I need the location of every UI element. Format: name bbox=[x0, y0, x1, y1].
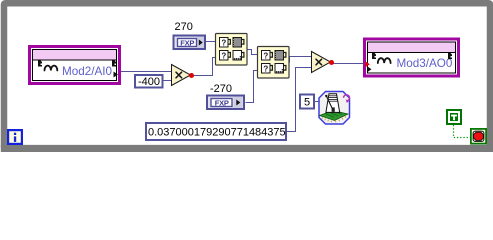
wire 5 constant to loop timer bbox=[315, 102, 321, 106]
svg-text:Mod2/AI0: Mod2/AI0 bbox=[62, 65, 113, 78]
loop condition stop terminal bbox=[471, 129, 486, 144]
multiply node 1 bbox=[172, 65, 195, 86]
svg-text:FXP: FXP bbox=[180, 38, 194, 47]
diagram background bbox=[0, 0, 493, 152]
pendulum bbox=[327, 97, 334, 112]
metronome body bbox=[326, 94, 340, 113]
I/O constant Mod3/AO0 bbox=[365, 39, 459, 76]
svg-text:5: 5 bbox=[304, 97, 310, 109]
svg-text:Mod3/AO0: Mod3/AO0 bbox=[397, 57, 453, 70]
loop timer (wait) node bbox=[319, 92, 350, 125]
wire -400 to multiply bbox=[163, 80, 172, 82]
numeric constant 5 bbox=[300, 95, 314, 109]
wire Mod2/AI0 to multiply bbox=[121, 71, 172, 73]
coercion dot bbox=[329, 60, 334, 65]
numeric constant 0.037000179290771484375 bbox=[146, 123, 286, 140]
green chip base bbox=[320, 111, 349, 121]
FXP constant -270 bbox=[207, 96, 244, 110]
svg-text:FXP: FXP bbox=[215, 98, 229, 107]
I/O constant Mod2/AI0 bbox=[30, 47, 120, 84]
svg-text:270: 270 bbox=[175, 21, 193, 33]
iteration terminal i bbox=[8, 130, 22, 144]
svg-text:0.037000179290771484375: 0.037000179290771484375 bbox=[148, 127, 286, 139]
input arrow bbox=[365, 61, 370, 67]
numeric constant -400 bbox=[135, 75, 163, 88]
wire FXP -270 to coerce node2 bbox=[246, 71, 258, 103]
svg-text:-270: -270 bbox=[210, 83, 232, 95]
purple loop arrow bbox=[344, 95, 350, 101]
wire 0.037 constant to multiply2 bbox=[287, 68, 312, 132]
wire FXP 270 to coerce node1 bbox=[206, 41, 216, 43]
wire coerce node1 to coerce node2 bbox=[248, 50, 258, 55]
svg-text:-400: -400 bbox=[138, 76, 160, 88]
boolean wire True constant to stop terminal bbox=[454, 125, 471, 138]
wire coerce node2 to multiply2 bbox=[290, 57, 312, 63]
multiply node 2 bbox=[312, 52, 335, 73]
coercion dot bbox=[189, 73, 194, 78]
wire multiply2 to Mod3/AO0 bbox=[331, 63, 367, 65]
coerce node 1 bbox=[216, 34, 248, 66]
FXP constant 270 bbox=[174, 36, 206, 50]
while loop border bbox=[4, 3, 490, 148]
wire multiply1 to coerce node1 bbox=[191, 58, 216, 76]
True boolean constant bbox=[447, 110, 461, 124]
coerce node 2 bbox=[258, 47, 290, 79]
